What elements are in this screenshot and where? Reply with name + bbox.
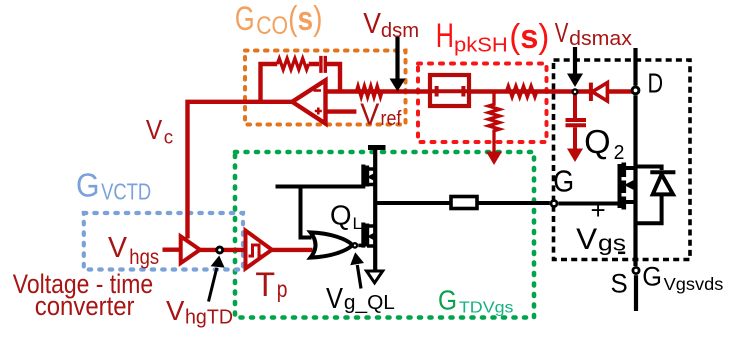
buffer comparator VCTD xyxy=(181,236,200,263)
svg-text:V: V xyxy=(108,232,128,264)
diode sensing D1 xyxy=(589,83,593,101)
op-amp minus sign xyxy=(314,89,322,92)
svg-text:g_QL: g_QL xyxy=(344,292,395,314)
supply bar top of driver xyxy=(368,145,386,150)
resistor feedback Rf xyxy=(277,59,308,70)
svg-text:G: G xyxy=(553,163,574,198)
svg-text:G: G xyxy=(235,0,255,38)
block Q2 power-stage dashed black box xyxy=(554,60,691,260)
body diode branch of Q2 xyxy=(636,167,662,224)
wire op-amp output to Vc node xyxy=(188,102,293,239)
svg-text:TDVgs: TDVgs xyxy=(459,300,514,317)
diode body D2 xyxy=(650,170,675,174)
arrow Vdsmax input xyxy=(573,47,577,74)
block Gco dashed orange box xyxy=(245,51,406,125)
svg-text:(s): (s) xyxy=(288,0,322,38)
pulse glyph inside Tp xyxy=(249,245,264,256)
svg-text:V: V xyxy=(363,8,381,40)
one-shot Tp xyxy=(246,231,272,269)
wire driver main vertical xyxy=(373,148,377,271)
wire drain vertical above D node xyxy=(633,48,637,86)
svg-text:converter: converter xyxy=(35,291,135,321)
block GTDVgs dashed green box xyxy=(235,152,534,318)
resistor R1 inverting input xyxy=(356,86,382,97)
wire buffer output xyxy=(200,248,245,252)
svg-text:L: L xyxy=(353,214,363,233)
svg-text:T: T xyxy=(255,266,275,304)
svg-text:V: V xyxy=(576,223,597,256)
node Vdsmax junction xyxy=(573,89,578,94)
svg-text:c: c xyxy=(164,128,173,149)
svg-text:pkSH: pkSH xyxy=(454,34,508,57)
transistor QL low-side driver xyxy=(363,223,375,248)
node S xyxy=(633,267,639,273)
op-amp plus sign xyxy=(315,108,322,115)
wire gate of Q2 to G node xyxy=(558,202,619,206)
block HpkSH dashed red box xyxy=(418,64,547,143)
wire feedback network xyxy=(261,64,341,102)
svg-text:V: V xyxy=(555,17,569,48)
wire M1 gate line xyxy=(276,187,364,238)
svg-text:V: V xyxy=(326,283,344,315)
label minus Vgs xyxy=(618,252,625,255)
svg-text:(s): (s) xyxy=(509,18,549,56)
svg-text:ref: ref xyxy=(381,108,402,130)
arrow VhgTD annotation xyxy=(209,268,217,302)
resistor gate Rg box xyxy=(451,197,477,209)
svg-text:Q: Q xyxy=(584,123,611,160)
node G xyxy=(551,201,557,207)
sample-hold block xyxy=(430,75,469,106)
node D xyxy=(632,87,639,94)
svg-text:G: G xyxy=(642,262,662,292)
node VhgTD xyxy=(217,247,223,253)
svg-text:Q: Q xyxy=(330,200,352,231)
node OR output xyxy=(353,243,357,247)
wire Tp output to OR gate xyxy=(272,248,313,252)
svg-text:S: S xyxy=(611,269,628,299)
svg-text:dsm: dsm xyxy=(381,20,419,42)
svg-text:VCTD: VCTD xyxy=(101,179,151,205)
arrow down under capacitor xyxy=(567,149,583,163)
svg-text:2: 2 xyxy=(614,142,625,164)
wire OR output to QL gate xyxy=(358,244,363,248)
arrow Vdsm input xyxy=(395,36,399,79)
svg-text:V: V xyxy=(360,96,379,131)
svg-text:+: + xyxy=(591,195,606,225)
svg-text:hgTD: hgTD xyxy=(185,307,233,329)
wire driver output to G node xyxy=(375,201,550,205)
resistor R2 in H block xyxy=(506,86,536,97)
svg-text:hgs: hgs xyxy=(129,246,159,269)
transistor M1 high-side driver xyxy=(363,165,375,189)
wire D node to Q2 drain and source to S node xyxy=(633,95,637,266)
wire op-amp non-inverting input Vref xyxy=(326,109,357,113)
svg-text:G: G xyxy=(76,166,100,203)
block GVCTD dashed blue box xyxy=(84,213,243,270)
wire Vhgs input xyxy=(163,247,181,251)
arrow Vg_QL annotation xyxy=(357,265,361,289)
wire below S node xyxy=(634,275,638,311)
transistor Q2 xyxy=(620,163,636,210)
svg-text:p: p xyxy=(277,276,288,302)
svg-text:D: D xyxy=(648,68,664,99)
resistor R3 vertical in H block xyxy=(489,92,500,153)
ground arrow under QL xyxy=(367,271,383,283)
gate OR U2 xyxy=(311,232,353,257)
svg-text:CO: CO xyxy=(256,12,288,40)
svg-text:V: V xyxy=(146,113,162,145)
svg-text:dsmax: dsmax xyxy=(569,28,632,50)
op-amp U1 xyxy=(292,80,325,123)
svg-text:G: G xyxy=(438,285,457,316)
capacitor sensing at Vdsmax xyxy=(566,95,587,149)
capacitor feedback Cf xyxy=(321,56,325,73)
arrow down under R3 xyxy=(486,152,502,166)
svg-text:Vgsvds: Vgsvds xyxy=(664,274,724,294)
svg-text:V: V xyxy=(166,295,185,326)
svg-text:H: H xyxy=(436,17,454,55)
wire op-amp inverting input to H block and D node xyxy=(326,89,633,93)
